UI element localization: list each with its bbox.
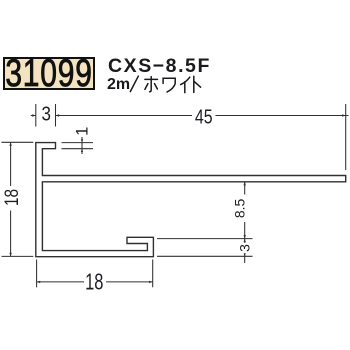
svg-text:3: 3 bbox=[41, 102, 50, 125]
svg-text:45: 45 bbox=[195, 104, 213, 127]
svg-text:18: 18 bbox=[85, 270, 103, 295]
svg-text:8.5: 8.5 bbox=[232, 198, 248, 218]
svg-text:3: 3 bbox=[236, 244, 252, 252]
svg-text:18: 18 bbox=[1, 189, 23, 206]
svg-text:1: 1 bbox=[74, 127, 92, 136]
